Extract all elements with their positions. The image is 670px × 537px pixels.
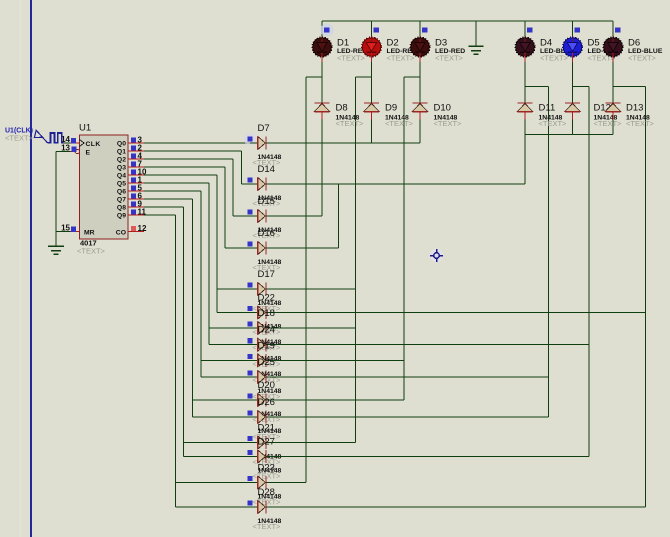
wire net B vertical xyxy=(355,77,357,443)
sheet border line xyxy=(30,0,32,537)
svg-text:<TEXT>: <TEXT> xyxy=(435,54,464,63)
svg-text:<TEXT>: <TEXT> xyxy=(77,247,106,256)
wire net A vertical xyxy=(305,77,307,483)
wire D4 column xyxy=(524,62,526,96)
svg-text:D22: D22 xyxy=(258,293,275,304)
wire D5 column xyxy=(572,62,574,96)
diode D27 1N4148 xyxy=(184,437,590,481)
wire D12 cathode down xyxy=(572,120,574,135)
svg-text:D19: D19 xyxy=(258,340,275,351)
diode D10 1N4148 xyxy=(412,96,462,128)
pin 12 CO xyxy=(128,224,147,233)
svg-text:D24: D24 xyxy=(258,325,275,336)
svg-text:<TEXT>: <TEXT> xyxy=(387,54,416,63)
svg-text:<TEXT>: <TEXT> xyxy=(628,54,657,63)
svg-text:D16: D16 xyxy=(258,228,275,239)
wire Q4 staircase xyxy=(144,175,217,313)
pin Q2 xyxy=(128,152,144,161)
wire Q9 staircase xyxy=(144,215,175,507)
svg-text:Q1: Q1 xyxy=(117,149,126,156)
svg-text:<TEXT>: <TEXT> xyxy=(594,119,623,128)
svg-text:<TEXT>: <TEXT> xyxy=(253,498,282,507)
pin Q3 xyxy=(128,160,144,169)
svg-text:D28: D28 xyxy=(258,487,275,498)
wire Q8 staircase xyxy=(144,207,183,457)
wire Q6 staircase xyxy=(144,191,201,377)
diode D15 1N4148 xyxy=(233,196,322,240)
diode D18 1N4148 xyxy=(209,308,356,352)
wire branch node E xyxy=(573,85,589,87)
wire MR link xyxy=(56,231,71,233)
diode D7 1N4148 xyxy=(244,123,420,167)
wire D3 column xyxy=(419,62,421,96)
op-amp U1 4017 decade counter body xyxy=(75,123,128,256)
LED D3 LED-RED xyxy=(410,21,465,63)
wire Q7 staircase xyxy=(144,199,192,417)
svg-text:E: E xyxy=(86,150,91,157)
LED D2 LED-RED xyxy=(362,21,417,63)
svg-text:D23: D23 xyxy=(258,463,275,474)
diode D24 1N4148 xyxy=(209,325,589,369)
pin Q9 xyxy=(128,208,147,217)
diode D11 1N4148 xyxy=(517,96,567,128)
svg-text:<TEXT>: <TEXT> xyxy=(540,54,569,63)
pin 13 E xyxy=(61,144,77,153)
svg-text:D2: D2 xyxy=(387,38,399,49)
wire D2 column xyxy=(371,62,373,96)
svg-text:Q0: Q0 xyxy=(117,141,126,148)
sheet margin stripe xyxy=(20,0,22,537)
svg-text:Q7: Q7 xyxy=(117,197,126,204)
svg-text:D11: D11 xyxy=(539,103,556,114)
svg-text:D25: D25 xyxy=(258,357,275,368)
svg-text:Q5: Q5 xyxy=(117,181,126,188)
wire E to net xyxy=(56,151,71,153)
wire right rail to D14 row xyxy=(524,135,526,184)
LED D1 LED-RED xyxy=(312,21,367,63)
pin Q5 xyxy=(128,176,144,185)
svg-text:D14: D14 xyxy=(258,164,275,175)
wire Q5 staircase xyxy=(144,183,209,345)
svg-text:CLK: CLK xyxy=(86,141,101,148)
svg-text:<TEXT>: <TEXT> xyxy=(336,119,365,128)
wire net C vertical xyxy=(403,77,405,400)
svg-text:D13: D13 xyxy=(626,103,643,114)
cursor marker xyxy=(430,249,443,262)
svg-text:D9: D9 xyxy=(385,103,397,114)
wire D1 column xyxy=(321,62,323,96)
pin Q7 xyxy=(128,192,144,201)
LED D6 LED-BLUE xyxy=(603,21,663,63)
svg-text:D5: D5 xyxy=(588,38,600,49)
wire D14 row to D16 row xyxy=(338,184,340,248)
svg-text:<TEXT>: <TEXT> xyxy=(385,119,414,128)
svg-text:D4: D4 xyxy=(540,38,552,49)
svg-text:D3: D3 xyxy=(435,38,447,49)
diode D8 1N4148 xyxy=(314,96,364,128)
wire Q2 staircase xyxy=(144,159,233,216)
svg-text:Q2: Q2 xyxy=(117,157,126,164)
wire E/MR vertical xyxy=(55,152,57,247)
svg-text:D1: D1 xyxy=(337,38,349,49)
wire D6 column xyxy=(612,62,614,96)
svg-text:D26: D26 xyxy=(258,397,275,408)
diode D19 1N4148 xyxy=(201,340,404,384)
svg-text:D15: D15 xyxy=(258,196,275,207)
svg-text:D17: D17 xyxy=(258,269,275,280)
svg-text:D20: D20 xyxy=(258,380,275,391)
wire branch node F xyxy=(613,85,646,87)
wire D9 cathode down xyxy=(371,120,373,144)
LED D4 LED-BLUE xyxy=(515,21,575,63)
wire net D vertical xyxy=(548,86,550,417)
wire top rail xyxy=(322,20,613,22)
wire D13 cathode down xyxy=(612,120,614,135)
wire Q1 staircase xyxy=(144,151,241,184)
svg-text:<TEXT>: <TEXT> xyxy=(5,134,34,143)
diode D26 1N4148 xyxy=(193,397,549,441)
diode D22 1N4148 xyxy=(217,293,646,337)
pin Q4 xyxy=(128,168,147,177)
diode D23 1N4148 xyxy=(176,463,307,507)
wire Q0 to D7 xyxy=(144,142,250,144)
pin Q0 xyxy=(128,136,144,145)
diode D25 1N4148 xyxy=(201,357,549,401)
wire branch node B xyxy=(356,76,372,78)
svg-text:D27: D27 xyxy=(258,437,275,448)
diode D20 1N4148 xyxy=(193,380,405,424)
diode D14 1N4148 xyxy=(242,164,526,208)
svg-text:D10: D10 xyxy=(434,103,451,114)
diode D21 1N4148 xyxy=(184,423,356,467)
wire D10 cathode down xyxy=(419,120,421,144)
pin 14 CLK xyxy=(61,135,79,144)
svg-text:<TEXT>: <TEXT> xyxy=(539,119,568,128)
wire Q3 staircase xyxy=(144,167,225,248)
svg-text:Q9: Q9 xyxy=(117,213,126,220)
svg-text:12: 12 xyxy=(138,224,147,233)
wire right cathode rail xyxy=(525,134,613,136)
wire D8 cathode down xyxy=(321,120,323,217)
wire branch node D xyxy=(525,85,549,87)
svg-text:D21: D21 xyxy=(258,423,275,434)
pin 15 MR xyxy=(61,224,79,233)
diode D17 1N4148 xyxy=(217,269,356,313)
diode D12 1N4148 xyxy=(565,96,622,128)
svg-text:D18: D18 xyxy=(258,308,275,319)
svg-text:D8: D8 xyxy=(336,103,348,114)
diode D9 1N4148 xyxy=(364,96,414,128)
pin Q8 xyxy=(128,200,144,209)
wire D11 cathode down xyxy=(524,120,526,135)
ground (top) xyxy=(469,21,484,54)
svg-text:Q8: Q8 xyxy=(117,205,126,212)
clock generator symbol xyxy=(34,130,63,143)
wire branch node A xyxy=(306,76,322,78)
wire net E vertical xyxy=(588,86,590,456)
diode D28 1N4148 xyxy=(176,487,646,531)
diode D13 1N4148 xyxy=(605,96,654,128)
svg-text:CO: CO xyxy=(116,230,126,237)
svg-text:MR: MR xyxy=(84,230,95,237)
svg-text:<TEXT>: <TEXT> xyxy=(337,54,366,63)
clock generator U1(CLK) label xyxy=(5,128,34,143)
LED D5 LED-BLUE xyxy=(563,21,623,63)
svg-text:Q6: Q6 xyxy=(117,189,126,196)
svg-text:D7: D7 xyxy=(258,123,270,134)
svg-text:U1: U1 xyxy=(79,123,91,134)
diode D16 1N4148 xyxy=(225,228,339,272)
svg-text:<TEXT>: <TEXT> xyxy=(626,119,655,128)
wire net F vertical xyxy=(645,86,647,507)
svg-text:D6: D6 xyxy=(628,38,640,49)
ground (U1 reset) xyxy=(48,246,64,254)
svg-text:<TEXT>: <TEXT> xyxy=(434,119,463,128)
pin Q6 xyxy=(128,184,144,193)
svg-text:<TEXT>: <TEXT> xyxy=(253,522,282,531)
pin Q1 xyxy=(128,144,144,153)
wire branch node C xyxy=(404,76,420,78)
svg-text:Q3: Q3 xyxy=(117,165,126,172)
svg-text:Q4: Q4 xyxy=(117,173,126,180)
